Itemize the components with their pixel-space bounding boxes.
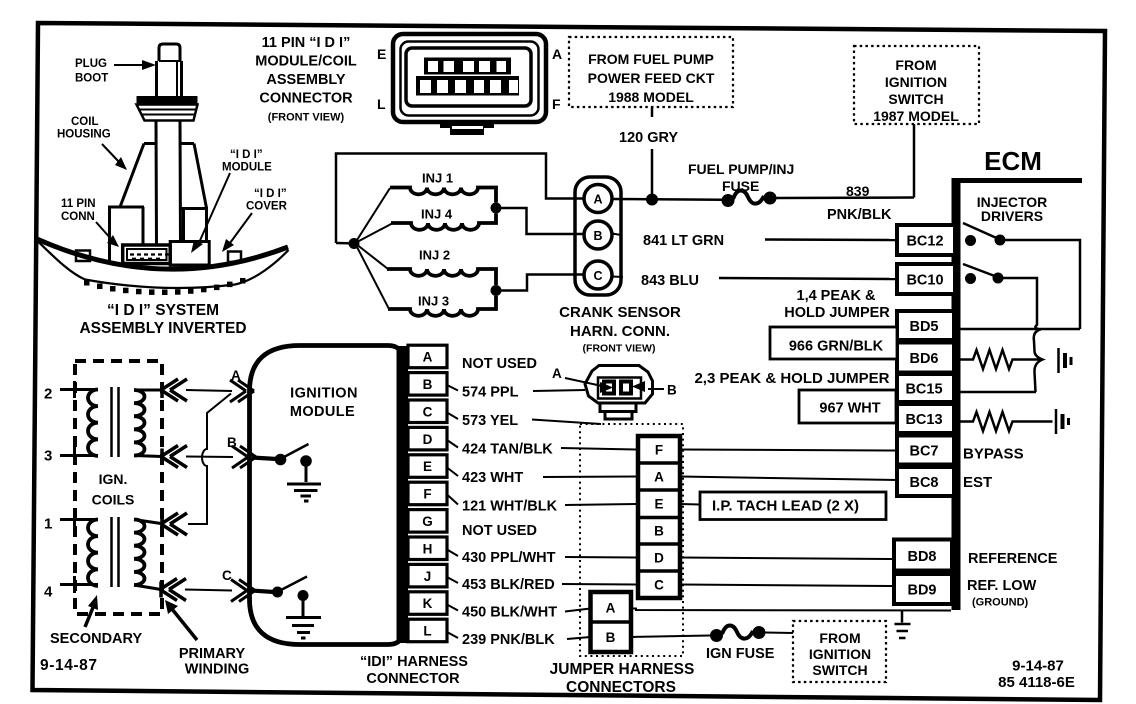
- label 841 LT GRN: [643, 233, 724, 249]
- IDI pin G: [408, 510, 447, 532]
- svg-text:F: F: [423, 487, 431, 502]
- wire pair B to ign fuse: [631, 636, 710, 638]
- coil housing trapezoid: [120, 144, 207, 209]
- svg-text:(GROUND): (GROUND): [972, 597, 1029, 609]
- svg-text:B: B: [423, 377, 433, 392]
- svg-text:D: D: [423, 432, 433, 447]
- tick D: [447, 440, 458, 448]
- label 423 WHT: [462, 470, 523, 486]
- svg-text:G: G: [422, 514, 433, 529]
- svg-text:EST: EST: [963, 474, 992, 491]
- svg-text:H: H: [423, 541, 433, 556]
- svg-text:BC15: BC15: [905, 382, 942, 398]
- wire 574 PPL to sensor connector: [533, 390, 585, 391]
- label IDI HARNESS CONNECTOR: [360, 654, 468, 687]
- svg-text:9-14-87: 9-14-87: [40, 657, 98, 674]
- terminal 1: [44, 511, 98, 533]
- coil primary winding upper: [134, 390, 162, 457]
- label PRIMARY WINDING: [179, 646, 249, 678]
- svg-text:BD8: BD8: [907, 549, 936, 565]
- svg-text:574 PPL: 574 PPL: [462, 385, 519, 401]
- coil core lower: [112, 517, 119, 587]
- svg-text:BD6: BD6: [909, 351, 938, 367]
- jumper harness dotted box: [580, 424, 683, 656]
- coil core upper: [112, 387, 119, 457]
- ECM outline: [952, 178, 1083, 610]
- svg-text:MODULE/COIL: MODULE/COIL: [255, 54, 357, 70]
- label EST: [963, 474, 992, 491]
- coil primary winding lower: [134, 520, 161, 590]
- label 9-14-87 left: [40, 657, 98, 674]
- svg-text:9-14-87: 9-14-87: [1012, 658, 1064, 675]
- svg-text:I.P. TACH LEAD (2 X): I.P. TACH LEAD (2 X): [712, 498, 859, 515]
- label FUEL PUMP/INJ FUSE: [688, 161, 794, 194]
- svg-text:2: 2: [44, 386, 52, 403]
- svg-text:“I D I” SYSTEM: “I D I” SYSTEM: [107, 302, 219, 319]
- svg-text:“I D I”: “I D I”: [230, 149, 263, 161]
- svg-text:K: K: [423, 596, 433, 611]
- injector INJ3: [388, 294, 496, 316]
- wire C to BD9: [680, 585, 894, 587]
- svg-text:NOT USED: NOT USED: [462, 523, 537, 539]
- module chevron A: [230, 380, 254, 402]
- wire C inside module: [251, 591, 274, 593]
- arrowhead left pin: [600, 382, 613, 393]
- svg-text:BC8: BC8: [909, 475, 938, 491]
- svg-text:REFERENCE: REFERENCE: [968, 551, 1058, 567]
- label A sensor pin: [552, 366, 602, 386]
- ECM pin BC15: [897, 374, 954, 402]
- jumper connector column: [638, 436, 680, 598]
- svg-text:INJ 2: INJ 2: [419, 248, 450, 263]
- svg-text:ASSEMBLY: ASSEMBLY: [266, 72, 346, 88]
- svg-text:MODULE: MODULE: [290, 404, 355, 420]
- svg-text:ECM: ECM: [984, 146, 1042, 176]
- wire to crank B: [500, 208, 584, 234]
- label 1,4 PEAK & HOLD JUMPER: [784, 288, 890, 321]
- svg-text:HARN. CONN.: HARN. CONN.: [570, 323, 670, 340]
- title 11 PIN IDI MODULE/COIL ASSEMBLY CONNECTOR: [255, 35, 357, 124]
- svg-text:BC7: BC7: [909, 444, 938, 460]
- injector INJ2: [387, 248, 496, 286]
- svg-text:B: B: [593, 229, 602, 243]
- svg-text:573 YEL: 573 YEL: [462, 413, 518, 429]
- jumper pin A: [654, 470, 664, 485]
- wire 121 to E: [565, 504, 638, 505]
- svg-text:120 GRY: 120 GRY: [619, 130, 678, 146]
- arrow to 11 pin conn: [96, 222, 119, 247]
- plug boot tower: [157, 44, 182, 96]
- label PLUG BOOT: [75, 58, 108, 85]
- label 450 BLK/WHT: [462, 605, 557, 621]
- svg-text:A: A: [593, 193, 602, 207]
- label SECONDARY: [50, 631, 142, 647]
- injector INJ4: [391, 207, 496, 230]
- svg-text:FROM: FROM: [819, 630, 860, 646]
- ECM pin BC12: [897, 225, 955, 255]
- svg-text:967 WHT: 967 WHT: [819, 401, 880, 417]
- battery symbol BC13: [1056, 409, 1069, 434]
- IDI pin E: [408, 455, 447, 478]
- resistor at BD6: [960, 350, 1043, 369]
- svg-text:JUMPER HARNESS: JUMPER HARNESS: [550, 661, 695, 678]
- label IGNITION MODULE: [290, 386, 358, 421]
- svg-text:BD5: BD5: [909, 319, 938, 335]
- center column: [156, 121, 181, 246]
- wire BC12 drain loop: [1005, 240, 1080, 329]
- leader line to cover: [222, 213, 252, 252]
- leader line to module: [191, 173, 230, 253]
- switch module C: [272, 577, 309, 602]
- svg-text:IGNITION: IGNITION: [809, 646, 871, 662]
- wire B to module: [186, 456, 233, 459]
- junction node INJ2/INJ3: [491, 285, 502, 296]
- label 85 4118-6E: [998, 674, 1075, 691]
- svg-text:843 BLU: 843 BLU: [641, 273, 699, 289]
- svg-text:PLUG: PLUG: [75, 58, 107, 70]
- module chevron C: [231, 580, 255, 602]
- ECM pin BD5: [897, 311, 954, 340]
- svg-text:BYPASS: BYPASS: [963, 446, 1024, 463]
- svg-text:966 GRN/BLK: 966 GRN/BLK: [789, 339, 884, 355]
- svg-text:A: A: [606, 601, 616, 616]
- arrow to coil housing: [102, 144, 127, 170]
- label 453 BLK/RED: [462, 577, 555, 593]
- wire A to module: [186, 390, 232, 391]
- svg-text:1987 MODEL: 1987 MODEL: [873, 108, 959, 124]
- svg-text:450 BLK/WHT: 450 BLK/WHT: [462, 605, 557, 621]
- svg-text:INJ 1: INJ 1: [422, 171, 453, 186]
- connector bottom tab: [440, 122, 494, 135]
- IDI pin K: [408, 592, 447, 615]
- svg-text:453 BLK/RED: 453 BLK/RED: [462, 577, 555, 593]
- wire 424 to F: [561, 448, 638, 450]
- svg-text:INJ 3: INJ 3: [418, 294, 449, 309]
- sensor 2-pin connector front view: [585, 366, 653, 420]
- svg-text:PNK/BLK: PNK/BLK: [827, 207, 892, 223]
- wire 430 to D: [565, 556, 638, 559]
- ECM pin BC13: [897, 404, 954, 433]
- svg-text:FUEL PUMP/INJ: FUEL PUMP/INJ: [688, 161, 794, 177]
- wire 120 GRY vertical: [651, 107, 654, 196]
- dotted box FROM IGNITION SWITCH: [793, 621, 886, 682]
- chevron pair coil B row: [161, 446, 187, 468]
- svg-text:L: L: [423, 624, 431, 639]
- IDI module box on assembly: [170, 242, 209, 266]
- cover teeth: [84, 278, 246, 295]
- svg-text:HOUSING: HOUSING: [57, 129, 111, 141]
- wire BD5 peak hold: [955, 328, 1080, 331]
- svg-text:85 4118-6E: 85 4118-6E: [998, 674, 1075, 691]
- switch injector driver 1: [963, 223, 1006, 246]
- svg-text:239 PNK/BLK: 239 PNK/BLK: [462, 632, 555, 648]
- wire C to module: [185, 590, 232, 591]
- IDI pin C: [408, 400, 447, 423]
- svg-text:A: A: [552, 46, 562, 62]
- wire 239 to pair B: [567, 637, 591, 639]
- svg-text:IGNITION: IGNITION: [290, 386, 358, 402]
- coil secondary winding upper: [88, 390, 98, 456]
- label 424 TAN/BLK: [462, 442, 553, 458]
- tick H: [447, 550, 458, 557]
- ground module C: [286, 601, 321, 639]
- label 9-14-87 right: [1012, 658, 1064, 675]
- jumper pin C: [654, 578, 664, 593]
- injector INJ1: [390, 171, 496, 203]
- label 574 PPL: [462, 385, 519, 401]
- chevron pair coil C row: [160, 579, 186, 601]
- wire BC15: [955, 391, 1036, 394]
- jumper pin D: [654, 551, 664, 566]
- tick C: [447, 413, 458, 420]
- label 120 GRY: [619, 130, 678, 146]
- svg-text:B: B: [654, 524, 664, 539]
- wire 423 to A: [543, 476, 638, 479]
- label IDI COVER: [246, 188, 288, 213]
- tick L: [447, 632, 458, 638]
- ECM pin BC7: [897, 436, 954, 465]
- chevron pair coil A row: [161, 379, 187, 401]
- fuse IGN: [710, 625, 766, 642]
- label 2,3 PEAK & HOLD JUMPER: [694, 370, 889, 387]
- ECM pin BD6: [897, 343, 954, 373]
- arrow to plug boot: [114, 60, 156, 70]
- svg-text:424 TAN/BLK: 424 TAN/BLK: [462, 442, 553, 458]
- terminal 3: [44, 447, 98, 465]
- svg-text:DRIVERS: DRIVERS: [981, 208, 1043, 224]
- label JUMPER HARNESS CONNECTORS: [550, 661, 695, 696]
- wire 453 to C: [562, 583, 638, 586]
- cover clips: [76, 251, 241, 263]
- IDI harness connector bar: [397, 346, 409, 643]
- svg-text:CRANK SENSOR: CRANK SENSOR: [559, 304, 681, 321]
- label 839 PNK/BLK: [827, 183, 892, 223]
- svg-text:430 PPL/WHT: 430 PPL/WHT: [462, 550, 556, 566]
- svg-text:FROM FUEL PUMP: FROM FUEL PUMP: [588, 51, 714, 67]
- ECM pin BC10: [897, 264, 955, 294]
- jumper pin F: [655, 443, 663, 458]
- IDI pin B: [408, 373, 447, 396]
- label COIL HOUSING: [57, 116, 111, 141]
- svg-text:A: A: [552, 366, 562, 381]
- wire B inside module: [252, 458, 277, 460]
- tick F: [447, 495, 458, 505]
- ECM heading: [984, 146, 1042, 176]
- label 430 PPL/WHT: [462, 550, 556, 566]
- svg-text:POWER FEED CKT: POWER FEED CKT: [588, 70, 715, 86]
- svg-text:B: B: [606, 630, 616, 645]
- label IGN. COILS: [92, 471, 135, 508]
- label 239 PNK/BLK: [462, 632, 555, 648]
- label CRANK SENSOR HARN CONN: [559, 304, 681, 355]
- wire 841 LT GRN to BC12: [612, 234, 897, 241]
- coil tower flange: [137, 96, 198, 121]
- jumper pin B: [654, 524, 664, 539]
- junction node injector common: [336, 238, 360, 249]
- cover curved base: [37, 239, 289, 288]
- ECM pin BD8: [894, 540, 952, 571]
- svg-text:(FRONT VIEW): (FRONT VIEW): [268, 112, 345, 124]
- switch module B: [275, 444, 312, 467]
- svg-text:“I D I”: “I D I”: [254, 188, 287, 200]
- resistor at BC13: [956, 412, 1053, 431]
- wire F to BC7: [680, 450, 897, 451]
- svg-text:(FRONT VIEW): (FRONT VIEW): [583, 343, 656, 355]
- label REFERENCE: [968, 551, 1058, 567]
- terminal 4: [44, 576, 98, 601]
- switch injector driver 2: [963, 264, 1004, 284]
- battery symbol BD6: [1059, 348, 1072, 373]
- dotted box FROM IGNITION SWITCH 1987 MODEL: [854, 46, 979, 124]
- jumper pair pin A: [606, 601, 616, 616]
- 11 pin connector box on assembly: [123, 245, 171, 264]
- label IDI MODULE: [222, 149, 272, 174]
- svg-text:COVER: COVER: [246, 201, 288, 213]
- svg-text:1,4 PEAK &: 1,4 PEAK &: [797, 288, 876, 304]
- svg-text:C: C: [593, 269, 602, 283]
- svg-text:COILS: COILS: [92, 492, 135, 508]
- svg-text:11 PIN “I D I”: 11 PIN “I D I”: [262, 35, 351, 51]
- wire top loop from injector common to crank A: [336, 154, 584, 244]
- svg-text:B: B: [667, 383, 677, 398]
- IDI pin J: [408, 564, 447, 587]
- terminal 2: [44, 381, 98, 403]
- connector pin labels E L A F: [377, 46, 562, 112]
- IDI pin H: [408, 537, 447, 560]
- wire fuse to ignition switch box: [765, 632, 793, 635]
- wire 450 to pair A: [565, 609, 591, 612]
- svg-text:“IDI” HARNESS: “IDI” HARNESS: [360, 654, 468, 670]
- jumper box 966 GRN/BLK: [770, 327, 897, 359]
- svg-text:IGNITION: IGNITION: [885, 74, 947, 90]
- arrow secondary: [85, 595, 98, 627]
- label REF. LOW (GROUND): [967, 578, 1037, 609]
- label C node: [222, 568, 232, 583]
- label 121 WHT/BLK: [462, 499, 558, 515]
- svg-text:F: F: [655, 443, 663, 458]
- label BYPASS: [963, 446, 1024, 463]
- svg-text:WINDING: WINDING: [185, 662, 249, 678]
- jumper pair connector: [591, 592, 632, 652]
- svg-text:423 WHT: 423 WHT: [462, 470, 523, 486]
- label 843 BLU: [641, 273, 699, 289]
- svg-text:INJ 4: INJ 4: [421, 207, 453, 222]
- svg-text:3: 3: [44, 448, 52, 465]
- 11-pin connector front view drawing: [393, 34, 546, 122]
- svg-text:CONNECTOR: CONNECTOR: [366, 671, 460, 687]
- label 573 YEL: [462, 413, 518, 429]
- svg-text:CONNECTOR: CONNECTOR: [259, 91, 353, 107]
- jumper pair pin B: [606, 630, 616, 645]
- wire pair A to ECM ground rail: [631, 609, 951, 611]
- wire 843 BLU to BC10: [612, 277, 897, 280]
- junction node 120GRY/A: [646, 194, 658, 206]
- svg-text:COIL: COIL: [71, 116, 98, 128]
- label INJECTOR DRIVERS: [977, 194, 1048, 224]
- wire jumper row riser with hop: [188, 394, 231, 525]
- wire to crank C: [501, 275, 584, 291]
- svg-text:CONN: CONN: [61, 211, 95, 223]
- junction node INJ1/INJ4: [491, 203, 502, 214]
- svg-text:2,3 PEAK & HOLD JUMPER: 2,3 PEAK & HOLD JUMPER: [694, 370, 889, 387]
- svg-text:SWITCH: SWITCH: [812, 662, 867, 678]
- svg-text:E: E: [423, 459, 432, 474]
- label B node: [227, 435, 237, 450]
- svg-text:NOT USED: NOT USED: [462, 356, 537, 372]
- svg-text:4: 4: [44, 584, 53, 601]
- ECM pin BD9: [894, 574, 952, 604]
- label A node: [231, 368, 241, 383]
- tick J: [447, 577, 458, 583]
- IDI pin F: [408, 482, 447, 505]
- tick E: [447, 468, 458, 477]
- svg-text:PRIMARY: PRIMARY: [179, 646, 246, 662]
- svg-text:C: C: [654, 578, 664, 593]
- svg-text:CONNECTORS: CONNECTORS: [566, 679, 676, 696]
- connector pin row bottom (6 pins): [416, 76, 519, 96]
- svg-text:1988 MODEL: 1988 MODEL: [608, 89, 694, 105]
- jumper pin E: [654, 497, 663, 512]
- svg-text:1: 1: [44, 516, 52, 533]
- wire from crank A to fuse: [612, 198, 722, 201]
- svg-text:IGN.: IGN.: [99, 471, 128, 487]
- arrowhead right pin: [632, 381, 645, 392]
- svg-text:D: D: [654, 551, 664, 566]
- svg-text:BC12: BC12: [906, 234, 943, 250]
- svg-text:F: F: [552, 96, 561, 112]
- label 11 PIN CONN: [61, 198, 96, 223]
- dotted box FROM FUEL PUMP POWER FEED CKT 1988 MODEL: [569, 37, 733, 107]
- module chevron B: [232, 446, 256, 468]
- svg-text:C: C: [423, 404, 433, 419]
- tick K: [447, 605, 458, 611]
- svg-text:E: E: [377, 46, 386, 62]
- ignition coils dashed box: [75, 361, 162, 614]
- ground module B: [287, 466, 321, 501]
- wire BC10 drain: [1003, 278, 1037, 322]
- jumper box 967 WHT: [799, 390, 896, 423]
- svg-text:A: A: [423, 350, 433, 365]
- wire A to BC8: [680, 477, 897, 481]
- svg-text:121 WHT/BLK: 121 WHT/BLK: [462, 499, 558, 515]
- svg-text:L: L: [377, 96, 386, 112]
- svg-text:A: A: [654, 470, 664, 485]
- svg-text:FROM: FROM: [895, 57, 936, 73]
- arrow primary winding: [165, 600, 197, 640]
- svg-text:11 PIN: 11 PIN: [61, 198, 96, 210]
- svg-text:IGN FUSE: IGN FUSE: [706, 646, 775, 662]
- wire merge brace: [1034, 322, 1043, 392]
- IDI pin L: [408, 619, 447, 642]
- label IGN FUSE: [706, 646, 775, 662]
- label B sensor pin: [648, 383, 677, 398]
- label NOT USED G: [462, 523, 537, 539]
- svg-text:REF. LOW: REF. LOW: [967, 578, 1037, 594]
- wire 839 PNK/BLK: [776, 124, 914, 198]
- chevron pair coil jumper row: [161, 513, 187, 535]
- label IDI SYSTEM ASSEMBLY INVERTED: [79, 302, 246, 337]
- label box I.P. TACH LEAD (2 X): [700, 492, 886, 520]
- svg-text:MODULE: MODULE: [222, 162, 272, 174]
- wire fanout to injectors: [357, 188, 392, 309]
- wire 573 YEL to sensor connector tab: [532, 420, 601, 425]
- ground ECM rail: [895, 611, 911, 639]
- svg-text:ASSEMBLY INVERTED: ASSEMBLY INVERTED: [79, 320, 246, 337]
- fuse FUEL PUMP/INJ: [722, 190, 777, 207]
- svg-text:BC10: BC10: [906, 273, 943, 289]
- ECM pin BC8: [897, 467, 954, 496]
- connector pin row top (5 pins): [424, 58, 511, 75]
